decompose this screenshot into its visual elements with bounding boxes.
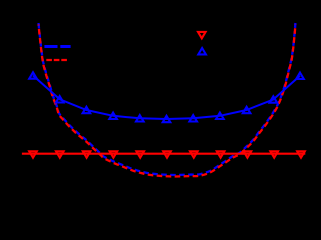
blue solid data line bbox=[33, 76, 300, 120]
blue up-triangle markers bbox=[29, 72, 304, 122]
red down-triangle markers bbox=[29, 151, 305, 157]
blue dashed theory curve bbox=[39, 23, 296, 175]
red solid horizontal line bbox=[22, 153, 305, 155]
legend: red dashed sample bbox=[46, 59, 68, 61]
legend: blue up-triangle marker bbox=[198, 48, 206, 54]
red dashed theory curve (shifted copy) bbox=[39, 25, 296, 177]
legend: blue thick dashed sample bbox=[44, 45, 70, 48]
legend: red down-triangle marker bbox=[198, 32, 206, 38]
